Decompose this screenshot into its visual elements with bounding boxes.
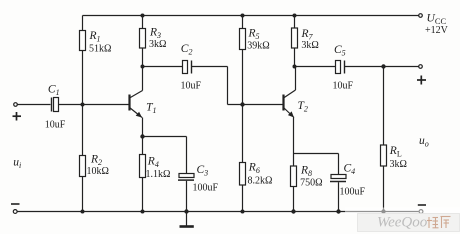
node R5 top rail junction bbox=[241, 14, 245, 18]
node R6 ground junction bbox=[241, 210, 245, 214]
wire T2 emitter down bbox=[293, 118, 295, 154]
wire R5 to base node bbox=[242, 50, 244, 105]
watermark WeeQoo box bbox=[345, 208, 460, 232]
wire R6 to ground rail bbox=[242, 185, 244, 212]
wire T1 collector up bbox=[142, 67, 144, 91]
svg-text:10uF: 10uF bbox=[333, 81, 354, 92]
wire bottom ground rail bbox=[18, 211, 419, 213]
wire R3 to collector node bbox=[142, 48, 144, 67]
output terminal - (bottom right) bbox=[418, 205, 426, 213]
resistor R1 51k bbox=[80, 30, 112, 55]
wire C5 to output terminal bbox=[345, 66, 419, 68]
node C3 ground junction bbox=[184, 209, 188, 213]
wire R1 to base node bbox=[82, 51, 84, 105]
wire base node to T1 bbox=[83, 104, 130, 106]
input terminal - (bottom left) bbox=[11, 204, 20, 213]
svg-text:8.2kΩ: 8.2kΩ bbox=[248, 176, 273, 187]
capacitor C4 100uF bbox=[330, 163, 366, 198]
svg-text:100uF: 100uF bbox=[193, 183, 219, 194]
node T1 collector junction bbox=[141, 65, 145, 69]
wire C2 to T2 base bbox=[192, 67, 284, 105]
wire T2 collector up bbox=[295, 67, 297, 91]
svg-text:100uF: 100uF bbox=[340, 187, 366, 198]
output terminal + (top right) bbox=[417, 65, 426, 85]
wire emitter node to C4 bbox=[294, 154, 339, 175]
wire R5 top lead bbox=[242, 16, 244, 29]
wire emitter node to R8 bbox=[293, 154, 295, 167]
wire R3 top lead bbox=[142, 16, 144, 29]
node R7 top rail junction bbox=[293, 14, 297, 18]
wire collector node to C2 bbox=[143, 66, 183, 68]
resistor R7 3k bbox=[292, 28, 319, 51]
capacitor C1 10uF bbox=[45, 84, 66, 131]
svg-text:39kΩ: 39kΩ bbox=[247, 41, 269, 52]
wire R2 to ground rail bbox=[82, 177, 84, 212]
node T2 collector junction bbox=[293, 65, 297, 69]
svg-text:10kΩ: 10kΩ bbox=[87, 166, 109, 177]
capacitor C5 10uF bbox=[333, 44, 354, 92]
node C4 ground junction bbox=[336, 209, 340, 213]
node RL top junction bbox=[381, 64, 385, 68]
wire C3 to ground rail bbox=[186, 181, 188, 212]
node T2 base junction bbox=[240, 102, 244, 106]
node R4 ground junction bbox=[141, 210, 145, 214]
wire RL top lead bbox=[383, 67, 385, 146]
svg-text:3kΩ: 3kΩ bbox=[390, 159, 407, 170]
resistor R5 39k bbox=[240, 28, 270, 52]
svg-text:51kΩ: 51kΩ bbox=[89, 44, 111, 55]
ground symbol bbox=[180, 212, 194, 227]
capacitor C2 10uF bbox=[181, 43, 202, 92]
wire base node to R2 bbox=[82, 105, 84, 156]
svg-text:10uF: 10uF bbox=[181, 81, 202, 92]
input terminal + (top left) bbox=[13, 103, 22, 121]
wire C1 to base node bbox=[59, 104, 83, 106]
resistor R6 8.2k bbox=[240, 162, 273, 187]
wire top supply rail bbox=[83, 15, 419, 17]
wire emitter node to R4 bbox=[142, 137, 144, 155]
wire R1 top lead bbox=[82, 16, 84, 31]
watermark CJK glyphs bbox=[427, 217, 451, 229]
capacitor C3 100uF bbox=[178, 164, 219, 194]
transistor T2 bbox=[284, 90, 308, 118]
resistor R3 3k bbox=[140, 27, 167, 51]
wire R7 top lead bbox=[294, 16, 296, 29]
wire input to C1 bbox=[18, 104, 51, 106]
node T1 emitter junction bbox=[140, 134, 144, 138]
supply terminal UCC +12V bbox=[419, 13, 449, 36]
resistor R2 10k bbox=[80, 154, 109, 178]
resistor RL 3k bbox=[381, 145, 407, 170]
wire R8 to ground rail bbox=[293, 187, 295, 212]
wire R7 to collector node bbox=[294, 48, 296, 67]
resistor R8 750 bbox=[291, 165, 323, 189]
svg-text:3kΩ: 3kΩ bbox=[149, 39, 166, 50]
node R3 top rail junction bbox=[141, 14, 145, 18]
wire T1 emitter down bbox=[142, 118, 144, 137]
svg-text:750Ω: 750Ω bbox=[300, 178, 322, 189]
wire C4 to ground rail bbox=[338, 182, 340, 211]
transistor T1 bbox=[130, 91, 157, 118]
svg-text:WeeQoo: WeeQoo bbox=[377, 215, 428, 231]
wire emitter node to C3 bbox=[143, 137, 187, 174]
wire collector node to C5 bbox=[295, 66, 336, 68]
svg-text:10uF: 10uF bbox=[45, 120, 66, 131]
node R8 ground junction bbox=[291, 209, 295, 213]
svg-text:+12V: +12V bbox=[425, 25, 449, 36]
wire RL to ground rail bbox=[383, 166, 385, 212]
node T1 base junction bbox=[81, 103, 85, 107]
svg-text:3kΩ: 3kΩ bbox=[301, 40, 318, 51]
node RL ground junction bbox=[381, 209, 385, 213]
wire R4 to ground rail bbox=[142, 178, 144, 212]
wire base node to R6 bbox=[242, 105, 244, 163]
node R2 ground junction bbox=[81, 210, 85, 214]
svg-text:1.1kΩ: 1.1kΩ bbox=[146, 169, 171, 180]
resistor R4 1.1k bbox=[140, 155, 171, 181]
